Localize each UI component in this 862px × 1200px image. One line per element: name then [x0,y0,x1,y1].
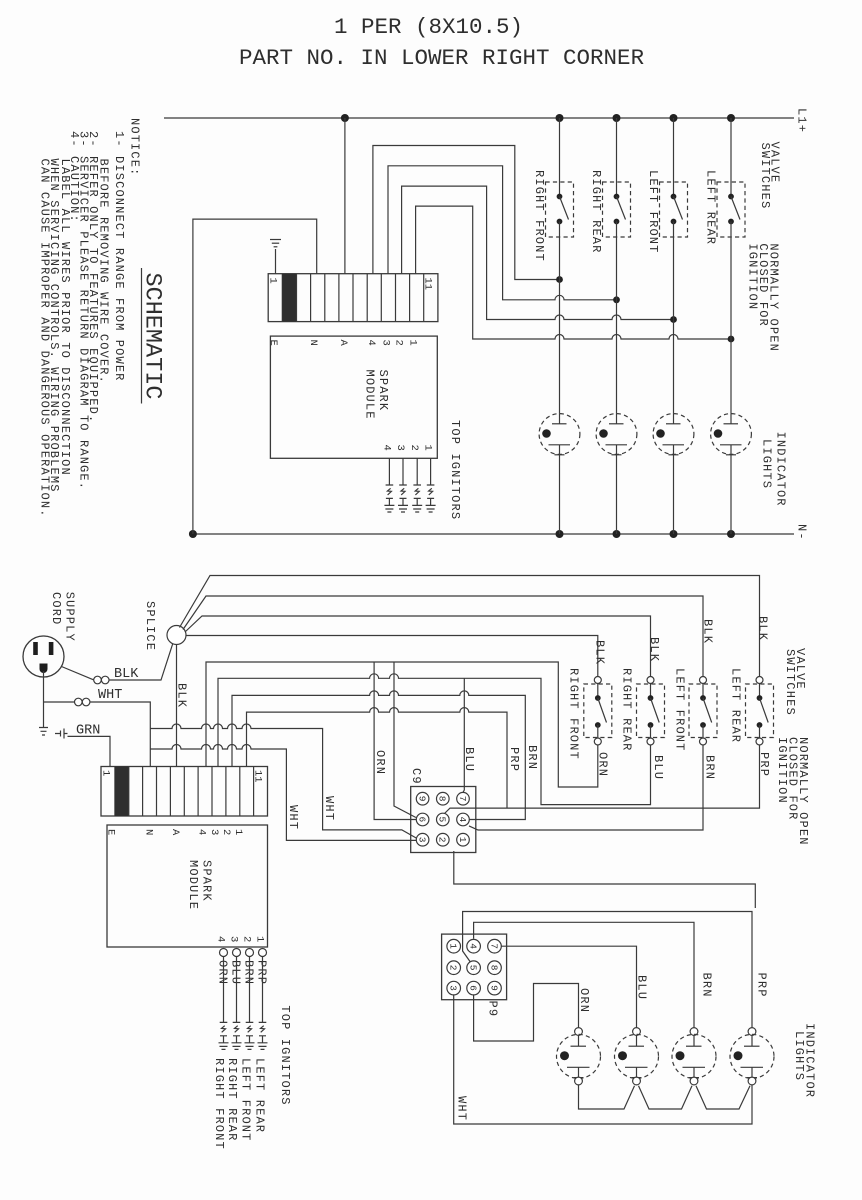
svg-text:NOTICE:: NOTICE: [128,118,142,176]
WHT branch row 1 to C9 pin 3 (humps) [150,724,416,838]
GRN chassis connector symbol [55,729,68,739]
SPARK MODULE label (top module) [363,370,391,420]
BLK wire plug to splice with inline connector [62,644,173,684]
label RIGHT FRONT (lower) [567,668,581,760]
indicator light 3 (top, left front) [653,414,694,534]
notice item 1 cont. [97,159,111,384]
svg-text:LEFT REAR: LEFT REAR [253,1058,267,1133]
strip pin 11 label [422,278,434,291]
svg-text:4: 4 [467,943,478,949]
svg-text:LEFT REAR: LEFT REAR [704,170,718,245]
svg-text:L1+: L1+ [795,108,809,133]
svg-text:E: E [105,829,117,835]
svg-text:1: 1 [448,943,459,949]
SPARK MODULE label (lower module) [186,860,214,910]
ORN wire P9 pin 6 to indicator light 1 [474,984,579,1042]
svg-text:IGNITION: IGNITION [746,243,760,310]
svg-text:P9: P9 [486,1001,500,1018]
svg-text:BRN: BRN [703,755,717,780]
notice item 4 cont. line 2 [47,159,61,493]
svg-text:TOP IGNITORS: TOP IGNITORS [448,420,462,520]
ORN label below right front switch [596,752,610,777]
wire module 1 to left rear switch (humps) [416,206,731,339]
svg-text:6: 6 [416,817,427,823]
svg-text:4: 4 [380,445,392,451]
BRN wire P9 pin 4 to indicator light 3 [474,922,694,1027]
module terminal labels E N A 4 3 2 1 (lower) [105,829,245,836]
svg-text:WHT: WHT [322,796,336,821]
BLK label right rear [647,637,661,662]
indicator light 4 (lower) [730,1028,774,1085]
svg-text:BLK: BLK [647,637,661,662]
svg-text:2: 2 [437,837,448,843]
BLU tap to C9 pin 7 [463,678,464,792]
label RIGHT REAR (top) [589,170,603,254]
svg-text:WHT: WHT [286,805,300,830]
WHT label near C9 wire 2 [286,805,300,830]
ignitor 3 (top section) [412,458,422,512]
svg-text:BLK: BLK [756,616,770,641]
ignitor 2 (top section) [398,458,408,512]
valve switch LEFT REAR (lower) [746,677,774,746]
BRN label (lights) [700,973,714,998]
indicator light 2 (lower) [615,1028,659,1085]
strip pin 1 label [267,278,279,284]
SUPPLY CORD label [49,592,77,642]
svg-text:RIGHT REAR: RIGHT REAR [620,668,634,752]
ignitor 4 (top section) [426,458,436,512]
notice item 4 cont. line 3 [38,159,52,518]
strip pin 11 label (lower) [252,770,264,783]
spark module terminal strip (top) [268,274,438,322]
svg-text:4: 4 [196,829,208,835]
svg-text:WHT: WHT [98,688,122,703]
BLU label (lights) [635,975,649,1000]
module ignitor pins with terminals (lower) [220,949,267,957]
svg-text:MODULE: MODULE [186,860,200,910]
spark module box (top) [270,336,437,458]
splice [167,626,186,645]
PRP row: strip 1 to C9 pin 5 line (humps) [247,708,508,809]
ignitor 1 (lower section) [219,957,229,1050]
svg-text:2: 2 [220,829,232,835]
module terminal labels E N A 4 3 2 1 [267,340,419,347]
ignitor 1 (top section) [384,458,394,512]
svg-text:A: A [337,340,349,347]
svg-text:LEFT FRONT: LEFT FRONT [646,170,660,254]
wire C9 pin 1 to PRP column [454,851,756,908]
label LEFT FRONT (top) [646,170,660,254]
label LEFT REAR (top) [704,170,718,245]
svg-text:RIGHT REAR: RIGHT REAR [589,170,603,254]
BRN label ignitor wire [242,960,256,985]
WHT label (return) [455,1096,469,1121]
svg-text:7: 7 [488,943,499,949]
connector C9 [411,787,476,853]
svg-text:4: 4 [457,817,468,823]
junction dots N- bus [189,530,735,538]
notice item 4 cont. line 1 [58,159,72,476]
BLK label left front [701,619,715,644]
BLU label ignitor wire [229,960,243,985]
WHT branch row 2 to C9 pin 3 (humps) [150,745,416,841]
svg-text:5: 5 [437,817,448,823]
indicator light 1 (lower) [557,1028,601,1086]
notice item 2 [86,131,100,423]
svg-text:1: 1 [254,936,266,942]
PRP label below left rear switch [757,752,771,777]
svg-text:SWITCHES: SWITCHES [783,649,797,716]
N- bus [193,533,794,535]
svg-text:7: 7 [457,796,468,802]
svg-text:N: N [143,829,155,835]
INDICATOR LIGHTS label (top) [760,432,788,507]
NORMALLY OPEN CLOSED FOR IGNITION label (top) [746,243,781,352]
valve switch RIGHT REAR (lower) [637,677,665,746]
svg-text:2: 2 [241,936,253,942]
svg-text:A: A [169,829,181,836]
svg-text:PRP: PRP [507,747,521,772]
valve switch RIGHT FRONT (top) [546,118,574,414]
splice fan line to RIGHT REAR switch (BLK) [185,616,651,677]
notice item 4 [67,131,81,223]
PRP label (lights) [755,973,769,998]
BLK label right front [593,640,607,665]
svg-text:SUPPLY: SUPPLY [63,592,77,642]
svg-text:PRP: PRP [255,960,269,985]
svg-text:3: 3 [394,445,406,451]
VALVE SWITCHES label (lower) [783,648,807,716]
svg-text:C9: C9 [409,768,423,785]
label LEFT REAR (lower ignitor 4) [253,1058,267,1133]
svg-text:RIGHT FRONT: RIGHT FRONT [532,170,546,262]
indicator light 4 (top, left rear) [711,414,752,534]
svg-text:LEFT REAR: LEFT REAR [729,668,743,743]
WHT label near C9 wire 1 [322,796,336,821]
BLK label left rear [756,616,770,641]
svg-text:11: 11 [422,278,434,291]
ground symbol at plug [39,702,48,735]
module ignitor pin labels 4 3 2 1 (top) [380,445,433,451]
chain wire light 2 to light 3 [639,1086,693,1109]
svg-text:SWITCHES: SWITCHES [758,143,772,210]
PRP label (C9 side) [507,747,521,772]
ORN tap to C9 pin 6 [374,662,416,820]
junction dots on switch columns [556,276,734,342]
PRP label ignitor wire [255,960,269,985]
svg-text:INDICATOR: INDICATOR [774,432,788,507]
svg-text:RIGHT FRONT: RIGHT FRONT [567,668,581,760]
notice item 3 [77,131,91,490]
L1+ bus [164,117,794,119]
spark module terminal strip (lower) [101,767,268,817]
PRP wire left rear switch to C9 pin 5 [445,745,760,814]
BLU wire P9 pin 7 to indicator light 2 [502,946,637,1027]
svg-text:1: 1 [232,829,244,835]
svg-text:BRN: BRN [242,960,256,985]
svg-text:LEFT FRONT: LEFT FRONT [673,668,687,752]
label LEFT REAR (lower) [729,668,743,743]
svg-text:3: 3 [416,837,427,843]
WHT return wire P9 pin 3 [454,995,752,1124]
svg-text:RIGHT REAR: RIGHT REAR [225,1058,239,1142]
indicator light 2 (top, right rear) [596,414,637,534]
indicator light 1 (top, right front) [539,414,580,534]
svg-text:3: 3 [228,936,240,942]
svg-text:3: 3 [380,340,392,346]
svg-text:1: 1 [267,278,279,284]
wire L1+ bus to module terminal A [344,118,346,274]
P9 pin numbers [448,943,500,991]
svg-text:LIGHTS: LIGHTS [792,1031,806,1081]
wire module 4 to right front switch [373,146,560,280]
title line 2 [239,45,644,71]
label RIGHT REAR (lower) [620,668,634,752]
svg-text:6: 6 [467,985,478,991]
splice fan line to LEFT REAR switch (BLK) [180,576,760,677]
svg-text:BLU: BLU [462,747,476,772]
ORN label (lights) [577,988,591,1013]
svg-text:4: 4 [365,340,377,346]
svg-text:1- DISCONNECT RANGE FROM POWE: 1- DISCONNECT RANGE FROM POWER [112,131,126,382]
indicator light 3 (lower) [672,1028,716,1085]
ignitor 3 (lower section) [245,957,255,1050]
valve switch LEFT FRONT (top) [660,118,688,414]
svg-text:1: 1 [457,837,468,843]
svg-text:SPARK: SPARK [200,860,214,902]
svg-text:ORN: ORN [373,750,387,775]
svg-text:9: 9 [488,985,499,991]
TOP IGNITORS label (lower section) [278,1005,292,1105]
ignitor 4 (lower section) [258,957,268,1050]
wire module 2 to left front switch (humps) [402,186,674,319]
svg-text:BLU: BLU [651,755,665,780]
ORN label ignitor wire [216,960,230,985]
BLU label (C9 tap) [462,747,476,772]
svg-text:2: 2 [393,340,405,346]
svg-text:ORN: ORN [596,752,610,777]
WHT label (plug wire) [98,688,122,703]
strip pin 1 label (lower) [100,770,112,776]
N- label [795,524,809,541]
svg-text:8: 8 [437,796,448,802]
C9 label [409,768,423,785]
VALVE SWITCHES label (top) [758,142,782,210]
svg-text:1: 1 [407,340,419,346]
splice fan line to RIGHT FRONT switch (BLK) [186,636,598,677]
BRN wire left front switch to C9 pin 4 [469,745,703,830]
BLK label (splice drop) [175,683,189,708]
label LEFT FRONT (lower ignitor 3) [239,1058,253,1142]
valve switch RIGHT FRONT (lower) [584,677,612,746]
svg-text:2: 2 [408,445,420,451]
svg-text:LIGHTS: LIGHTS [760,439,774,489]
svg-text:SPLICE: SPLICE [143,601,157,651]
svg-text:3: 3 [448,985,459,991]
C9 pin numbers [416,796,467,843]
supply cord plug [23,636,64,677]
BRN label (C9 side) [525,745,539,770]
INDICATOR LIGHTS label (lower) [792,1023,816,1098]
L1+ label [795,108,809,133]
svg-text:8: 8 [488,965,499,971]
svg-text:N-: N- [795,524,809,541]
svg-text:1 PER (8X10.5): 1 PER (8X10.5) [334,14,523,40]
svg-text:SCHEMATIC: SCHEMATIC [139,273,166,400]
svg-text:BLK: BLK [701,619,715,644]
WHT wire plug to module N with inline connector [44,677,151,767]
spark module box (lower) [107,825,268,947]
svg-text:BRN: BRN [700,973,714,998]
ORN row: strip 4 to right front switch [206,662,598,787]
svg-text:BLU: BLU [229,960,243,985]
GRN wire to strip [68,736,111,766]
svg-text:1: 1 [422,445,434,451]
svg-text:TOP IGNITORS: TOP IGNITORS [278,1005,292,1105]
junction dots L1+ bus at valve switch columns [556,114,736,122]
svg-text:IGNITION: IGNITION [775,737,789,804]
svg-text:PART NO. IN LOWER RIGHT CORNER: PART NO. IN LOWER RIGHT CORNER [239,45,644,71]
wire module 3 to right rear switch (hump over RF column) [388,166,617,300]
svg-text:WHT: WHT [455,1096,469,1121]
title line 1 [334,14,523,40]
BRN row: strip 2 to C9 pin 4 (humps) [232,691,525,820]
svg-text:1: 1 [100,770,112,776]
label RIGHT FRONT (lower ignitor 1) [212,1058,226,1150]
ground symbol at module strip [270,240,281,274]
label LEFT FRONT (lower) [673,668,687,752]
svg-text:E: E [267,340,279,346]
GRN label [76,724,100,739]
svg-text:BLK: BLK [593,640,607,665]
valve switch LEFT FRONT (lower) [689,677,717,746]
svg-text:N: N [307,340,319,346]
ORN tap 2 to C9 pin 6 [394,662,416,818]
module ignitor pin labels 4 3 2 1 (lower) [215,936,266,942]
svg-text:2: 2 [448,965,459,971]
svg-text:LEFT FRONT: LEFT FRONT [239,1058,253,1142]
label RIGHT REAR (lower ignitor 2) [225,1058,239,1142]
P9 label [486,1001,500,1018]
svg-text:CORD: CORD [49,592,63,625]
svg-text:SPARK: SPARK [376,370,390,412]
BRN label below left front switch [703,755,717,780]
svg-text:PRP: PRP [755,973,769,998]
svg-text:3: 3 [208,829,220,835]
svg-text:4: 4 [215,936,227,942]
chain wire light 1 to light 2 [579,1085,635,1109]
svg-text:PRP: PRP [757,752,771,777]
TOP IGNITORS label (top section) [448,420,462,520]
valve switch RIGHT REAR (top) [603,118,631,414]
SCHEMATIC heading (rotated, underlined) [139,268,166,404]
splice fan line to LEFT FRONT switch (BLK) [183,596,703,677]
chain wire light 3 to light 4 [696,1086,750,1109]
BLK wire splice to module A [176,645,178,767]
svg-text:MODULE: MODULE [363,370,377,420]
notice item 1 [112,131,126,382]
svg-text:BLK: BLK [114,667,139,682]
ignitor 2 (lower section) [232,957,242,1050]
NOTICE: heading (rotated) [128,118,142,176]
svg-text:5: 5 [467,965,478,971]
svg-text:9: 9 [416,796,427,802]
svg-text:ORN: ORN [216,960,230,985]
svg-text:BRN: BRN [525,745,539,770]
BLU row: strip 3 to right rear switch (humps over ORN taps) [218,674,651,805]
wire E terminal to N- bus (left loop) [193,219,317,534]
label RIGHT FRONT (top) [532,170,546,262]
svg-text:BLU: BLU [635,975,649,1000]
svg-text:BLK: BLK [175,683,189,708]
BLU label below right rear switch [651,755,665,780]
ORN label (C9 taps) [373,750,387,775]
junction L1+ bus / spark module feed [341,114,349,122]
PRP wire P9 pin 5 to indicator light 4 [463,912,752,1028]
svg-text:CAN CAUSE IMPROPER AND DANGERO: CAN CAUSE IMPROPER AND DANGEROUS OPERATI… [38,159,52,518]
svg-text:RIGHT FRONT: RIGHT FRONT [212,1058,226,1150]
SPLICE label [143,601,157,651]
svg-text:ORN: ORN [577,988,591,1013]
BLK label (plug wire) [114,667,139,682]
NORMALLY OPEN CLOSED FOR IGNITION label (lower) [775,737,810,846]
connector P9 [442,934,507,1000]
valve switch LEFT REAR (top) [717,118,745,414]
svg-text:11: 11 [252,770,264,783]
